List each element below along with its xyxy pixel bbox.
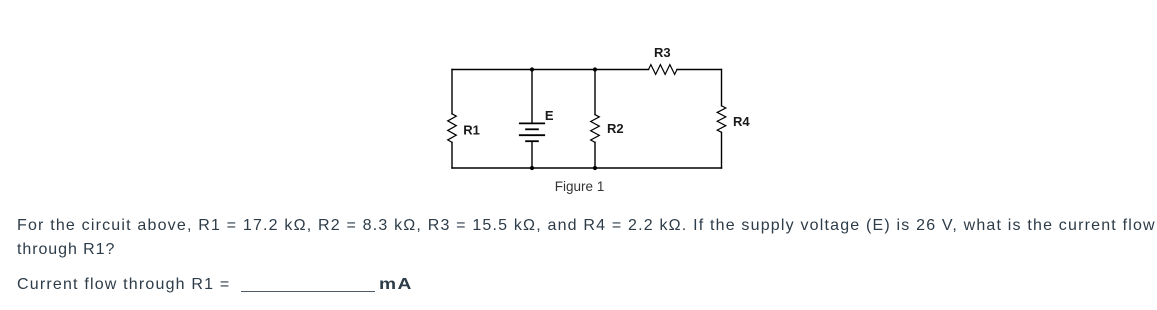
wire: bottom, battery node to R2 node xyxy=(532,167,595,169)
wire: top, left corner to battery node xyxy=(452,69,532,71)
svg-text:R3: R3 xyxy=(654,45,671,60)
wire: left branch upper lead to R1 xyxy=(451,70,453,114)
resistor R2 xyxy=(591,115,600,143)
node: top battery junction xyxy=(530,67,534,71)
node: bottom battery junction xyxy=(530,166,534,170)
svg-text:Figure 1: Figure 1 xyxy=(555,179,605,194)
svg-text:R2: R2 xyxy=(607,121,624,136)
wire: right branch lower lead from R4 xyxy=(721,132,723,168)
node: bottom R2 junction xyxy=(593,166,597,170)
wire: battery branch upper lead xyxy=(531,70,533,124)
svg-text:E: E xyxy=(545,108,554,123)
wire: R2 branch upper lead xyxy=(594,70,596,115)
svg-text:R1: R1 xyxy=(463,123,480,138)
wire: left branch lower lead from R1 xyxy=(451,142,453,168)
wire: bottom, left corner to battery node xyxy=(452,167,532,169)
wire: top, R3 right lead to right corner xyxy=(677,69,722,71)
wire: bottom, R2 node to right corner xyxy=(595,167,722,169)
resistor R4 xyxy=(717,106,726,133)
question paragraph xyxy=(17,214,1156,262)
node: top R2 junction xyxy=(593,67,597,71)
battery E xyxy=(520,123,544,141)
answer line xyxy=(17,273,407,297)
resistor R1 xyxy=(448,114,457,143)
wire: battery branch lower lead xyxy=(531,141,533,168)
wire: top, R2 node to R3 left lead xyxy=(595,69,649,71)
resistor R3 xyxy=(649,65,678,75)
label R4 xyxy=(733,114,750,129)
label R3 xyxy=(654,45,671,60)
label E xyxy=(545,108,554,123)
svg-text:R4: R4 xyxy=(733,114,750,129)
label R1 xyxy=(463,123,480,138)
wire: top, battery node to R2 node xyxy=(532,69,595,71)
caption Figure 1 xyxy=(555,179,605,194)
wire: R2 branch lower lead xyxy=(594,142,596,168)
label R2 xyxy=(607,121,624,136)
wire: right branch upper lead to R4 xyxy=(721,70,723,106)
